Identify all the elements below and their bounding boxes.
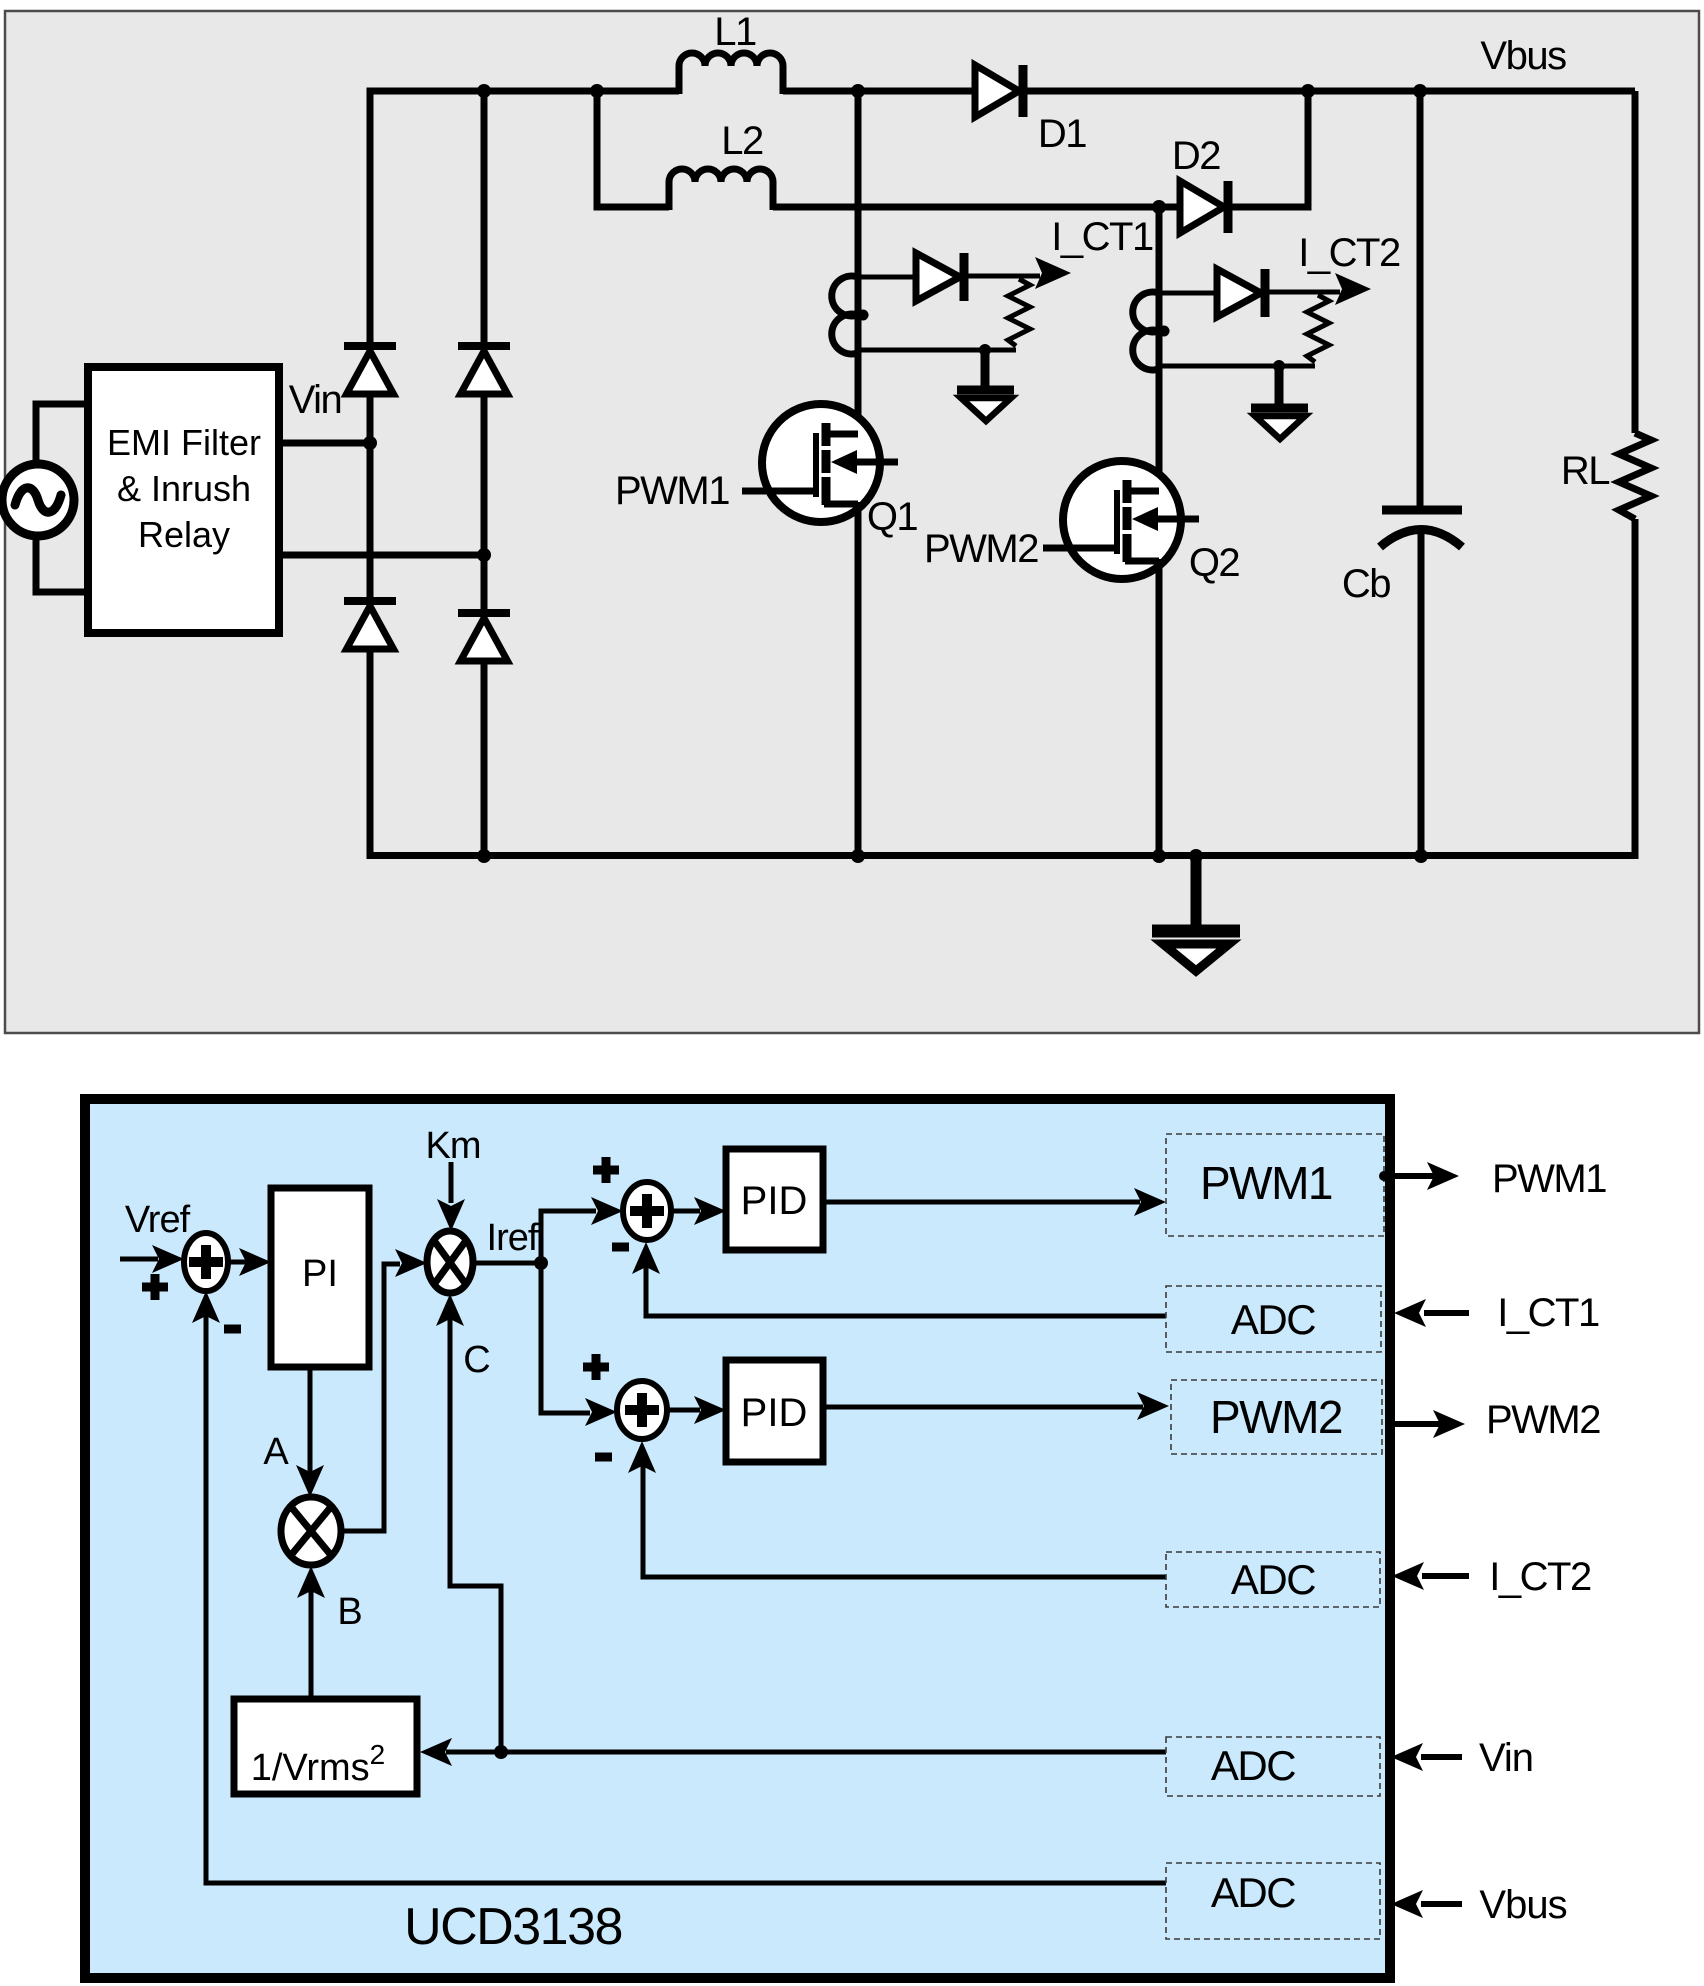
node bottom rail Cb	[1414, 849, 1428, 863]
diode bridge bottom-left	[344, 601, 396, 649]
node CT1 winding tap	[858, 310, 869, 321]
block PI	[271, 1188, 369, 1367]
transistor Q1 (MOSFET)	[742, 404, 898, 522]
transistor Q2 (MOSFET)	[1043, 461, 1199, 579]
wire Iref branch up to sum2	[541, 1197, 623, 1263]
svg-text:PI: PI	[302, 1253, 338, 1295]
wire bottom rail	[370, 852, 1635, 859]
arrow I_CT1 external input	[1394, 1299, 1469, 1327]
node EMI bottom output	[477, 548, 491, 562]
power stage panel background	[5, 11, 1699, 1033]
node Q1 drain branch	[851, 84, 865, 98]
summer sum3	[617, 1381, 667, 1439]
wire 1/Vrms2 up to multiplier A (input B)	[297, 1566, 325, 1699]
wire Q2 drain from D2 node through CT2 primary	[1156, 207, 1163, 494]
label plus at sum2	[593, 1157, 619, 1183]
node Iref	[534, 1256, 548, 1270]
svg-text:UCD3138: UCD3138	[404, 1898, 622, 1956]
wire top rail left	[367, 88, 680, 95]
arrow PWM1 external output	[1390, 1162, 1459, 1190]
svg-text:ADC: ADC	[1211, 1869, 1295, 1916]
node CT1 ground tap	[979, 344, 991, 356]
block ADC Vbus (dashed)	[1166, 1863, 1380, 1939]
node Q2 drain branch	[1152, 200, 1166, 214]
node D2 return	[1301, 84, 1315, 98]
wire PI down to multiplier A	[296, 1367, 324, 1497]
svg-text:PWM2: PWM2	[1210, 1391, 1342, 1443]
wire Q1 drain from rail through CT1 primary	[855, 91, 862, 437]
multiplier AB	[281, 1497, 341, 1565]
node right bridge leg top	[477, 84, 491, 98]
wire CT2 diode to arrow	[1265, 290, 1340, 295]
node EMI top output	[363, 436, 377, 450]
wire AC source bottom to EMI	[36, 536, 89, 592]
ground main output	[1152, 856, 1240, 971]
diode bridge bottom-right	[458, 613, 510, 661]
svg-text:PID: PID	[741, 1391, 808, 1435]
wire CT1 diode to arrow	[964, 274, 1040, 279]
svg-text:ADC: ADC	[1231, 1556, 1315, 1603]
wire PID2 to PWM2 block	[823, 1392, 1169, 1420]
svg-text:I_CT1: I_CT1	[1497, 1291, 1599, 1335]
svg-text:D1: D1	[1038, 112, 1086, 156]
label plus at sum1	[142, 1274, 168, 1300]
resistor CT1 burden	[1008, 279, 1030, 346]
svg-text:Vref: Vref	[125, 1199, 191, 1241]
multiplier X	[427, 1231, 473, 1293]
wire bridge left leg	[367, 88, 374, 859]
inductor L2	[669, 169, 773, 210]
svg-text:Km: Km	[426, 1125, 481, 1167]
label minus at sum2	[612, 1243, 629, 1252]
node bottom rail Q2 source	[1152, 849, 1166, 863]
wire Km down into multiplier X	[437, 1162, 465, 1231]
block ADC Vin (dashed)	[1166, 1737, 1380, 1796]
wire CT1 secondary bottom	[858, 348, 1016, 353]
EMI filter block	[88, 367, 279, 633]
label minus at sum1	[224, 1325, 241, 1334]
arrow I_CT2 signal	[1335, 273, 1371, 305]
wire Iref branch down to sum3	[541, 1263, 617, 1426]
wire top rail D1 to RL corner	[1023, 88, 1635, 95]
wire sum2 to PID1	[671, 1197, 726, 1225]
node bottom rail Q1 source	[851, 849, 865, 863]
block PWM2 (dashed)	[1171, 1380, 1382, 1454]
node CT2 winding tap	[1159, 326, 1170, 337]
arrow I_CT2 external input	[1392, 1562, 1469, 1590]
svg-text:A: A	[263, 1431, 289, 1473]
wire CT2 secondary top	[1159, 291, 1217, 296]
wire Cb branch	[1417, 91, 1424, 507]
block PID1	[726, 1149, 823, 1250]
label minus at sum3	[595, 1453, 612, 1462]
AC source V1	[2, 464, 74, 536]
wire sum3 to PID2	[667, 1396, 726, 1424]
arrow Vbus external input	[1391, 1890, 1462, 1918]
ground CT2	[1251, 366, 1308, 439]
node Cb branch	[1413, 84, 1427, 98]
wire top rail L1 to D1	[783, 88, 975, 95]
ground CT1	[957, 350, 1014, 421]
arrow PWM2 external output	[1390, 1410, 1465, 1438]
wire ADC1 feedback to sum2 minus	[632, 1242, 1166, 1316]
svg-text:PWM1: PWM1	[615, 469, 729, 513]
svg-text:PID: PID	[741, 1179, 808, 1223]
wire PID1 to PWM1 block	[823, 1188, 1166, 1216]
wire CT1 secondary top	[858, 275, 916, 280]
wire EMI top output to bridge	[279, 440, 370, 447]
node PWM1 output pin	[1379, 1171, 1389, 1181]
svg-text:1/Vrms2: 1/Vrms2	[251, 1739, 386, 1789]
node bottom rail right bridge leg	[477, 849, 491, 863]
svg-text:I_CT1: I_CT1	[1051, 215, 1153, 259]
diode CT2 rectifier	[1217, 269, 1265, 317]
wire C input up into multiplier X	[436, 1294, 501, 1752]
wire multiplier AB output up to multiplier X	[341, 1249, 427, 1531]
diode CT1 rectifier	[916, 253, 964, 301]
label plus at sum3	[583, 1354, 609, 1380]
svg-text:PWM1: PWM1	[1492, 1157, 1606, 1201]
wire RL branch	[1632, 91, 1639, 859]
node CT2 ground tap	[1273, 360, 1285, 372]
wire sum1 to PI	[228, 1248, 271, 1276]
wire Iref output	[473, 1261, 541, 1266]
wire L2 to D2 anode	[773, 204, 1180, 211]
wire ADC Vin to 1/Vrms2	[420, 1738, 1166, 1766]
wire EMI bottom output to bridge	[279, 552, 484, 559]
resistor RL	[1619, 433, 1651, 519]
svg-text:EMI Filter: EMI Filter	[107, 422, 261, 463]
svg-text:PWM2: PWM2	[924, 527, 1038, 571]
wire Q2 source to bottom rail	[1156, 559, 1163, 856]
svg-text:I_CT2: I_CT2	[1489, 1555, 1591, 1599]
wire branch down to L2	[597, 91, 669, 207]
wire Q1 source to bottom rail	[855, 502, 862, 856]
node bottom rail ground tap	[1189, 849, 1203, 863]
svg-text:D2: D2	[1172, 134, 1220, 178]
node C tap on Vin line	[494, 1745, 508, 1759]
svg-text:PWM1: PWM1	[1200, 1157, 1332, 1209]
wire ADC Vbus feedback to sum1 minus	[192, 1291, 1166, 1883]
wire ADC2 feedback to sum3 minus	[628, 1441, 1166, 1577]
diode bridge top-left	[344, 346, 396, 394]
arrow Vin external input	[1391, 1743, 1462, 1771]
svg-text:ADC: ADC	[1231, 1296, 1315, 1343]
summer sum1	[184, 1233, 228, 1291]
wire CT2 secondary bottom	[1159, 364, 1315, 369]
block ADC1 (dashed)	[1166, 1286, 1381, 1352]
svg-text:Vin: Vin	[1479, 1736, 1533, 1780]
svg-text:Vbus: Vbus	[1480, 34, 1566, 78]
diode D2	[1180, 181, 1228, 233]
wire AC source top to EMI	[36, 404, 89, 464]
current transformer CT2 winding	[1133, 292, 1159, 370]
wire bridge right leg	[481, 88, 488, 859]
svg-text:Relay: Relay	[138, 514, 230, 555]
wire D2 cathode up to top rail	[1228, 91, 1308, 207]
svg-text:Vin: Vin	[289, 378, 342, 422]
block PWM1 (dashed)	[1166, 1134, 1384, 1236]
svg-text:L1: L1	[714, 10, 756, 54]
block ADC2 (dashed)	[1166, 1552, 1380, 1607]
block 1/Vrms squared	[234, 1699, 417, 1794]
svg-text:& Inrush: & Inrush	[117, 468, 251, 509]
svg-text:Vbus: Vbus	[1479, 1883, 1566, 1927]
block PID2	[726, 1360, 823, 1462]
node L2 branch	[590, 84, 604, 98]
diode bridge top-right	[458, 346, 510, 394]
arrow I_CT1 signal	[1035, 257, 1071, 289]
diode D1	[975, 65, 1023, 117]
svg-text:Iref: Iref	[487, 1217, 539, 1259]
current transformer CT1 winding	[832, 276, 858, 354]
svg-text:Q1: Q1	[867, 495, 918, 539]
inductor L1	[679, 53, 783, 94]
svg-text:C: C	[463, 1339, 490, 1381]
UCD3138 controller block	[85, 1099, 1390, 1978]
svg-text:ADC: ADC	[1211, 1742, 1295, 1789]
svg-text:Q2: Q2	[1189, 541, 1240, 585]
svg-text:PWM2: PWM2	[1486, 1398, 1600, 1442]
capacitor Cb	[1380, 510, 1462, 856]
resistor CT2 burden	[1307, 295, 1329, 362]
summer sum2	[623, 1182, 671, 1240]
svg-text:L2: L2	[721, 119, 763, 163]
svg-text:I_CT2: I_CT2	[1298, 231, 1400, 275]
svg-text:Cb: Cb	[1342, 562, 1390, 606]
svg-text:RL: RL	[1561, 449, 1609, 493]
wire Vref input arrow	[120, 1245, 184, 1273]
svg-text:B: B	[337, 1591, 362, 1633]
